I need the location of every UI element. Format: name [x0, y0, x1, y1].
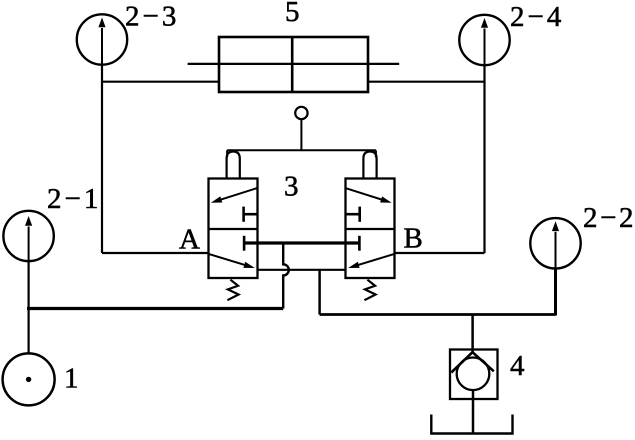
valve 3 left bottom arrow — [209, 254, 255, 268]
valve 3 right top blocked port T — [346, 207, 360, 222]
svg-text:5: 5 — [285, 0, 300, 28]
svg-text:4: 4 — [510, 350, 525, 382]
valve 3 left spring — [227, 280, 238, 301]
svg-text:1: 1 — [64, 363, 79, 395]
svg-text:2−1: 2−1 — [47, 183, 101, 215]
svg-text:2−4: 2−4 — [510, 1, 564, 33]
wire: riser to valve pressure line with crossover hop — [283, 243, 289, 309]
svg-text:A: A — [179, 224, 200, 256]
pressure gauge 2-2 — [530, 218, 580, 268]
pressure gauge 2-3 — [77, 14, 127, 64]
valve lever knob — [295, 107, 307, 151]
valve 3 right bottom arrow — [348, 254, 394, 268]
valve 3 left top arrow — [211, 188, 257, 203]
wire: gauge 2-2 riser — [554, 268, 557, 315]
pressure gauge 2-1 — [3, 211, 53, 261]
check valve 4 — [450, 350, 498, 400]
valve lever bar — [227, 150, 376, 157]
valve 3 right push button actuator — [363, 152, 376, 179]
wire: thick pressure line between valves — [244, 241, 360, 244]
pump 1 — [3, 353, 55, 405]
valve 3 left body — [209, 179, 258, 279]
wire: drop from inter-valve line — [318, 270, 321, 315]
valve 3 right body — [346, 179, 395, 279]
cylinder 5 body — [219, 37, 368, 92]
wire: drop into check valve — [471, 315, 474, 353]
valve 3 left push button actuator — [227, 152, 240, 179]
svg-text:2−3: 2−3 — [125, 1, 179, 33]
wire: inter-valve bottom line — [258, 269, 346, 271]
svg-text:3: 3 — [284, 171, 299, 203]
wire: A port horizontal — [102, 252, 209, 254]
cylinder 5 piston rod — [188, 63, 400, 65]
tank — [431, 415, 512, 434]
wire: cylinder left port — [102, 81, 219, 83]
valve 3 right top arrow — [346, 188, 392, 203]
valve 3 left bottom blocked port T — [243, 236, 246, 251]
wire: check valve to tank — [472, 390, 475, 434]
wire: cylinder right port — [368, 81, 485, 83]
valve 3 right bottom blocked port T — [358, 236, 361, 251]
wire: gauge 2-4 drop to B line — [483, 65, 485, 253]
wire: pump riser through gauge 2-1 — [28, 261, 30, 354]
valve 3 right spring — [364, 280, 375, 301]
wire: gauge 2-3 drop to A line — [101, 65, 103, 254]
wire: pump supply line thick — [27, 307, 283, 310]
svg-text:B: B — [404, 222, 423, 254]
svg-text:2−2: 2−2 — [583, 202, 635, 234]
valve 3 left top blocked port T — [244, 207, 258, 222]
wire: return line to tank branch — [320, 313, 556, 316]
wire: B port horizontal — [395, 252, 485, 254]
pressure gauge 2-4 — [459, 15, 509, 65]
